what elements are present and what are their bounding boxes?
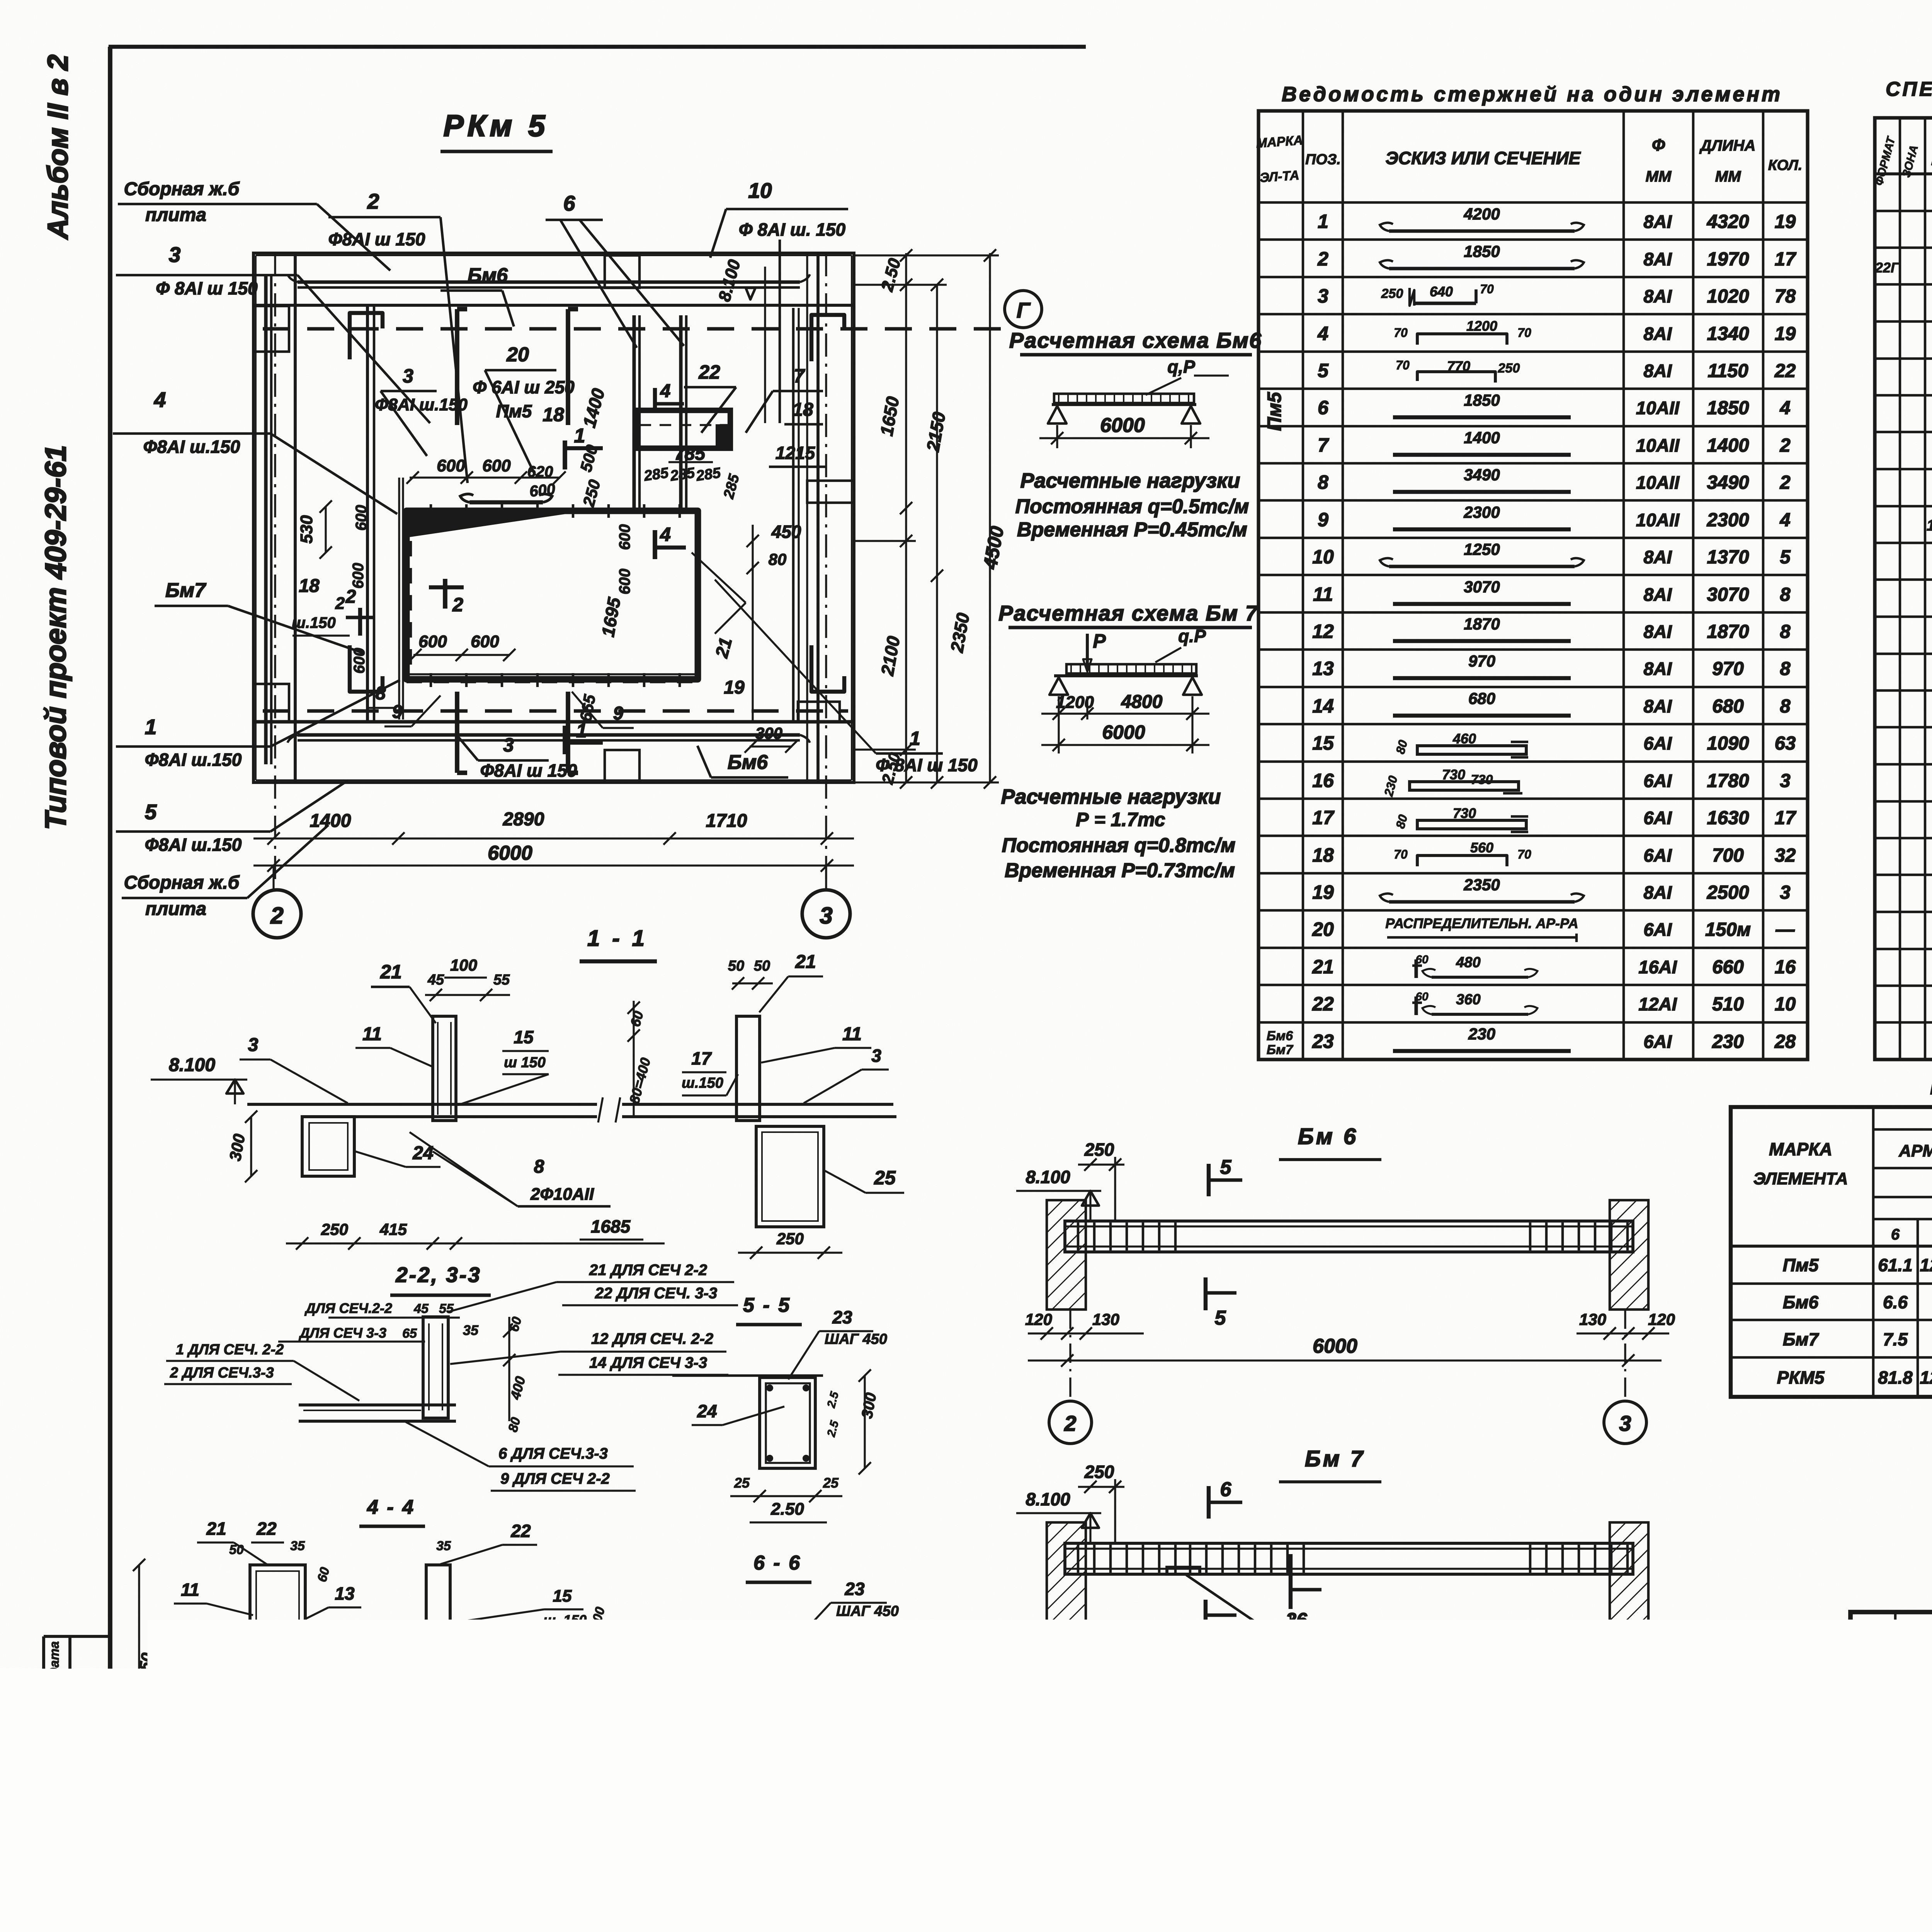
svg-text:q,Р: q,Р bbox=[1167, 357, 1195, 377]
svg-text:3: 3 bbox=[503, 734, 514, 756]
svg-text:250: 250 bbox=[321, 1220, 348, 1238]
svg-text:25: 25 bbox=[171, 1695, 192, 1715]
svg-text:22: 22 bbox=[256, 1519, 277, 1539]
svg-text:8.100: 8.100 bbox=[1026, 1167, 1070, 1187]
svg-text:16: 16 bbox=[1312, 770, 1334, 791]
svg-text:6 - 6: 6 - 6 bbox=[753, 1552, 801, 1574]
svg-text:Нач. отд: Нач. отд bbox=[1855, 1750, 1917, 1765]
svg-text:1 ДЛЯ СЕЧ. 2-2: 1 ДЛЯ СЕЧ. 2-2 bbox=[176, 1342, 284, 1358]
svg-text:q.Р: q.Р bbox=[1178, 626, 1206, 646]
svg-text:3490: 3490 bbox=[1707, 472, 1749, 493]
svg-text:Р = 1.7тс: Р = 1.7тс bbox=[1076, 809, 1165, 830]
svg-text:3490: 3490 bbox=[1464, 466, 1500, 484]
svg-text:23: 23 bbox=[1312, 1031, 1334, 1052]
svg-text:2: 2 bbox=[452, 594, 463, 616]
svg-text:600: 600 bbox=[418, 632, 447, 651]
svg-text:2.50: 2.50 bbox=[770, 1500, 804, 1519]
svg-text:21: 21 bbox=[1312, 956, 1334, 978]
svg-text:130: 130 bbox=[1092, 1671, 1119, 1689]
svg-text:ЭСКИЗ ИЛИ СЕЧЕНИЕ: ЭСКИЗ ИЛИ СЕЧЕНИЕ bbox=[1386, 148, 1581, 168]
svg-text:6 ДЛЯ СЕЧ.3-3: 6 ДЛЯ СЕЧ.3-3 bbox=[498, 1445, 608, 1462]
svg-text:АРМАТУРНАЯ СТАЛЬ ГОСТ 5781-75: АРМАТУРНАЯ СТАЛЬ ГОСТ 5781-75 bbox=[1898, 1141, 1932, 1160]
svg-text:5 - 5: 5 - 5 bbox=[743, 1294, 791, 1316]
svg-text:600: 600 bbox=[482, 456, 511, 475]
svg-text:Ф 8АI ш. 150: Ф 8АI ш. 150 bbox=[739, 219, 846, 240]
svg-text:4: 4 bbox=[1779, 510, 1790, 531]
svg-text:17: 17 bbox=[691, 1048, 712, 1068]
svg-text:1850: 1850 bbox=[1707, 398, 1749, 418]
svg-text:Бм6: Бм6 bbox=[1267, 1029, 1293, 1043]
svg-text:Бм7: Бм7 bbox=[1783, 1329, 1820, 1349]
svg-text:21: 21 bbox=[795, 952, 816, 972]
svg-text:2: 2 bbox=[1064, 1769, 1076, 1794]
svg-text:ДЛИНА: ДЛИНА bbox=[1699, 137, 1756, 154]
svg-text:Пм5: Пм5 bbox=[1264, 391, 1285, 431]
svg-text:8АI: 8АI bbox=[1643, 361, 1672, 381]
svg-text:Лист.: Лист. bbox=[1896, 1709, 1932, 1723]
svg-text:45: 45 bbox=[427, 972, 444, 988]
svg-text:9 ДЛЯ СЕЧ 2-2: 9 ДЛЯ СЕЧ 2-2 bbox=[500, 1470, 610, 1487]
svg-text:680: 680 bbox=[1468, 689, 1495, 707]
svg-text:7: 7 bbox=[1318, 434, 1329, 456]
svg-text:100: 100 bbox=[450, 956, 477, 974]
svg-text:510: 510 bbox=[1712, 994, 1744, 1015]
svg-text:18: 18 bbox=[299, 576, 320, 596]
svg-text:4800: 4800 bbox=[1121, 692, 1163, 712]
svg-text:21 ДЛЯ СЕЧ 2-2: 21 ДЛЯ СЕЧ 2-2 bbox=[589, 1262, 707, 1279]
svg-text:460: 460 bbox=[1452, 731, 1476, 747]
svg-text:230: 230 bbox=[1468, 1025, 1495, 1043]
svg-text:Альбом II в 2: Альбом II в 2 bbox=[42, 54, 74, 240]
svg-text:6000: 6000 bbox=[1313, 1335, 1357, 1357]
svg-text:22: 22 bbox=[1774, 361, 1796, 381]
svg-text:3: 3 bbox=[248, 1035, 259, 1055]
svg-text:ш.150: ш.150 bbox=[682, 1075, 723, 1091]
svg-text:СПЕЦИФИКАЦИЯ: СПЕЦИФИКАЦИЯ bbox=[1886, 78, 1932, 100]
svg-text:13: 13 bbox=[1312, 658, 1334, 679]
svg-text:1850: 1850 bbox=[1464, 242, 1500, 260]
svg-text:70: 70 bbox=[1480, 282, 1494, 296]
svg-text:1: 1 bbox=[145, 715, 157, 739]
svg-text:120: 120 bbox=[1648, 1310, 1675, 1328]
svg-text:6: 6 bbox=[1318, 397, 1329, 418]
svg-text:124.6: 124.6 bbox=[1920, 1255, 1932, 1275]
svg-text:2-2, 3-3: 2-2, 3-3 bbox=[395, 1263, 481, 1287]
svg-text:19: 19 bbox=[1312, 881, 1334, 903]
svg-text:Ф8АI ш.150: Ф8АI ш.150 bbox=[143, 437, 240, 457]
svg-text:285: 285 bbox=[695, 465, 722, 485]
svg-text:50: 50 bbox=[229, 1543, 244, 1557]
svg-text:730: 730 bbox=[1442, 767, 1465, 782]
svg-text:8: 8 bbox=[1318, 471, 1328, 493]
svg-text:Расчетная схема Бм6: Расчетная схема Бм6 bbox=[1009, 328, 1262, 352]
svg-text:1970: 1970 bbox=[1707, 249, 1749, 270]
svg-text:22 ДЛЯ СЕЧ. 3-3: 22 ДЛЯ СЕЧ. 3-3 bbox=[595, 1285, 717, 1302]
svg-text:Р: Р bbox=[1093, 630, 1106, 652]
svg-text:4: 4 bbox=[660, 524, 671, 545]
svg-text:1870: 1870 bbox=[1707, 621, 1749, 642]
svg-text:14: 14 bbox=[1312, 695, 1334, 717]
svg-text:Пм5: Пм5 bbox=[496, 401, 532, 421]
svg-text:4: 4 bbox=[1779, 398, 1790, 418]
svg-text:1: 1 bbox=[576, 720, 587, 742]
svg-text:1400: 1400 bbox=[1707, 435, 1749, 456]
svg-text:Ф: Ф bbox=[1652, 136, 1665, 155]
svg-text:600: 600 bbox=[437, 456, 465, 475]
svg-text:640: 640 bbox=[1430, 284, 1453, 299]
svg-text:78: 78 bbox=[1775, 286, 1796, 307]
svg-text:РКм 5: РКм 5 bbox=[444, 109, 549, 143]
svg-text:530: 530 bbox=[297, 515, 316, 544]
svg-text:6АI: 6АI bbox=[1643, 733, 1672, 753]
svg-text:9: 9 bbox=[392, 702, 403, 722]
svg-text:1340: 1340 bbox=[1707, 323, 1749, 344]
svg-text:25: 25 bbox=[825, 1808, 841, 1824]
svg-text:81.8: 81.8 bbox=[1878, 1367, 1913, 1388]
svg-text:Гл.констр.: Гл.констр. bbox=[1855, 1770, 1932, 1786]
svg-text:6.6: 6.6 bbox=[1883, 1292, 1908, 1312]
svg-text:Бм 6: Бм 6 bbox=[1298, 1124, 1358, 1149]
svg-text:2 ДЛЯ СЕЧ.3-3: 2 ДЛЯ СЕЧ.3-3 bbox=[170, 1365, 274, 1381]
svg-text:26: 26 bbox=[862, 1753, 883, 1773]
svg-text:17: 17 bbox=[1312, 807, 1335, 828]
svg-text:8АI: 8АI bbox=[1643, 584, 1672, 605]
svg-text:10: 10 bbox=[1775, 994, 1796, 1015]
svg-text:ш. 150: ш. 150 bbox=[543, 1612, 587, 1628]
svg-text:120: 120 bbox=[1025, 1671, 1052, 1689]
svg-text:1200: 1200 bbox=[1163, 1670, 1202, 1690]
svg-text:—: — bbox=[1776, 919, 1795, 940]
svg-text:3070: 3070 bbox=[1707, 584, 1749, 605]
svg-text:РАСПРЕДЕЛИТЕЛЬН. АР-РА: РАСПРЕДЕЛИТЕЛЬН. АР-РА bbox=[1385, 915, 1578, 931]
svg-text:МАРКА: МАРКА bbox=[1769, 1139, 1832, 1159]
svg-text:10: 10 bbox=[1312, 546, 1334, 568]
svg-text:8АI: 8АI bbox=[1643, 249, 1672, 269]
svg-text:23: 23 bbox=[156, 1782, 176, 1803]
svg-text:50: 50 bbox=[728, 958, 744, 974]
svg-text:6: 6 bbox=[1215, 1629, 1226, 1651]
svg-text:65: 65 bbox=[402, 1326, 417, 1341]
svg-text:124.6: 124.6 bbox=[1920, 1367, 1932, 1388]
svg-text:560: 560 bbox=[1470, 840, 1493, 855]
svg-text:20: 20 bbox=[506, 344, 529, 366]
svg-text:1-22: 1-22 bbox=[1927, 517, 1932, 534]
svg-text:5: 5 bbox=[1220, 1156, 1232, 1179]
svg-text:Ф8АI ш.150: Ф8АI ш.150 bbox=[375, 395, 468, 414]
svg-text:15: 15 bbox=[1312, 732, 1334, 754]
svg-text:ДЛЯ СЕЧ.2-2: ДЛЯ СЕЧ.2-2 bbox=[304, 1300, 392, 1316]
svg-text:12АI: 12АI bbox=[1638, 994, 1677, 1014]
svg-text:2: 2 bbox=[1779, 435, 1790, 456]
svg-text:ЭЛ-ТА: ЭЛ-ТА bbox=[1259, 168, 1300, 185]
svg-text:600: 600 bbox=[616, 569, 633, 595]
svg-text:2: 2 bbox=[270, 903, 283, 929]
svg-text:6: 6 bbox=[563, 191, 575, 215]
svg-text:8АI: 8АI bbox=[1643, 211, 1672, 232]
svg-text:8АI: 8АI bbox=[1643, 323, 1672, 344]
svg-text:16: 16 bbox=[175, 1634, 195, 1654]
svg-text:8АI: 8АI bbox=[1643, 882, 1672, 903]
svg-text:600: 600 bbox=[616, 524, 633, 550]
svg-text:2300: 2300 bbox=[1463, 503, 1500, 521]
svg-text:23: 23 bbox=[844, 1579, 865, 1599]
svg-text:16: 16 bbox=[1775, 957, 1796, 978]
svg-text:Ведомость стержней на один: Ведомость стержней на один элемент bbox=[1282, 83, 1782, 106]
svg-text:730: 730 bbox=[1453, 805, 1476, 821]
svg-text:ш.150: ш.150 bbox=[167, 1660, 206, 1676]
svg-text:10АII: 10АII bbox=[1636, 472, 1680, 493]
svg-text:1215: 1215 bbox=[776, 443, 816, 463]
svg-text:6АI: 6АI bbox=[1643, 1031, 1672, 1052]
svg-text:Рук. гр.: Рук. гр. bbox=[1855, 1791, 1906, 1807]
svg-text:25: 25 bbox=[874, 1167, 896, 1189]
svg-text:6АI: 6АI bbox=[1643, 770, 1672, 791]
svg-text:10: 10 bbox=[589, 1688, 608, 1707]
svg-text:250: 250 bbox=[1084, 1462, 1114, 1482]
svg-text:2.50: 2.50 bbox=[771, 1833, 805, 1852]
svg-text:8.100: 8.100 bbox=[1026, 1489, 1070, 1509]
svg-text:11: 11 bbox=[181, 1580, 199, 1600]
svg-text:Пм5: Пм5 bbox=[1783, 1255, 1819, 1275]
svg-text:КОЛ.: КОЛ. bbox=[1768, 157, 1803, 173]
svg-text:18: 18 bbox=[793, 400, 813, 420]
svg-text:21: 21 bbox=[380, 961, 402, 983]
svg-text:3: 3 bbox=[871, 1046, 881, 1066]
svg-text:1710: 1710 bbox=[706, 811, 747, 831]
svg-text:5: 5 bbox=[1780, 547, 1791, 568]
svg-text:2.50: 2.50 bbox=[314, 1808, 346, 1827]
svg-text:25: 25 bbox=[823, 1475, 839, 1491]
svg-text:19: 19 bbox=[724, 677, 745, 698]
svg-text:300: 300 bbox=[755, 724, 782, 742]
svg-text:Бм7: Бм7 bbox=[1267, 1043, 1294, 1057]
svg-text:3: 3 bbox=[1318, 285, 1328, 307]
svg-text:ПОЗ.: ПОЗ. bbox=[1305, 151, 1341, 168]
svg-text:2300: 2300 bbox=[1706, 510, 1749, 531]
svg-text:4: 4 bbox=[660, 381, 671, 401]
svg-text:24: 24 bbox=[412, 1143, 433, 1163]
svg-text:1850: 1850 bbox=[1464, 391, 1500, 409]
svg-text:11: 11 bbox=[842, 1024, 862, 1044]
svg-text:Бм6: Бм6 bbox=[728, 751, 768, 774]
svg-text:1150: 1150 bbox=[1708, 361, 1748, 381]
svg-text:Бм6: Бм6 bbox=[468, 264, 508, 287]
svg-text:Ф8АI ш.150: Ф8АI ш.150 bbox=[145, 750, 242, 770]
svg-text:250: 250 bbox=[1084, 1139, 1114, 1160]
svg-text:3: 3 bbox=[1619, 1411, 1631, 1435]
svg-text:8: 8 bbox=[534, 1156, 544, 1177]
svg-text:ПРОВЕРИЛ: ПРОВЕРИЛ bbox=[1855, 1832, 1932, 1848]
svg-text:150м: 150м bbox=[1705, 919, 1751, 940]
svg-text:плита: плита bbox=[145, 205, 206, 225]
svg-text:Подп. и дата: Подп. и дата bbox=[47, 1641, 62, 1728]
svg-text:18: 18 bbox=[543, 404, 564, 425]
svg-text:480: 480 bbox=[1456, 954, 1480, 971]
svg-text:2: 2 bbox=[1317, 248, 1328, 270]
svg-text:55: 55 bbox=[439, 1301, 454, 1316]
svg-text:35: 35 bbox=[290, 1539, 305, 1553]
svg-text:Сборная ж.б: Сборная ж.б bbox=[124, 872, 240, 893]
svg-text:360: 360 bbox=[1456, 992, 1480, 1008]
svg-text:Г: Г bbox=[1017, 298, 1031, 322]
svg-text:3: 3 bbox=[1780, 882, 1790, 903]
svg-text:ш 150: ш 150 bbox=[504, 1054, 546, 1071]
svg-text:ДЛЯ СЕЧ 3-3: ДЛЯ СЕЧ 3-3 bbox=[298, 1325, 386, 1341]
svg-text:250: 250 bbox=[776, 1230, 804, 1248]
svg-text:2: 2 bbox=[1779, 472, 1790, 493]
svg-text:8: 8 bbox=[1780, 621, 1791, 642]
svg-text:2890: 2890 bbox=[503, 809, 544, 830]
svg-text:70: 70 bbox=[1517, 847, 1531, 861]
svg-text:14 ДЛЯ СЕЧ 3-3: 14 ДЛЯ СЕЧ 3-3 bbox=[589, 1354, 707, 1371]
svg-text:7.5: 7.5 bbox=[1883, 1329, 1908, 1349]
svg-text:2Ф10АII: 2Ф10АII bbox=[526, 1750, 587, 1769]
svg-text:17: 17 bbox=[1775, 249, 1797, 270]
svg-text:Постоянная q=0.5тс/м: Постоянная q=0.5тс/м bbox=[1015, 495, 1249, 518]
svg-text:8АI: 8АI bbox=[1643, 286, 1672, 306]
svg-text:2500: 2500 bbox=[1706, 882, 1749, 903]
svg-text:970: 970 bbox=[1468, 652, 1495, 670]
svg-text:Ф8АI ш.150: Ф8АI ш.150 bbox=[145, 835, 242, 855]
svg-text:24: 24 bbox=[697, 1401, 717, 1421]
svg-text:12 ДЛЯ СЕЧ. 2-2: 12 ДЛЯ СЕЧ. 2-2 bbox=[591, 1330, 713, 1347]
svg-text:35: 35 bbox=[436, 1539, 451, 1553]
svg-text:25: 25 bbox=[734, 1475, 750, 1491]
svg-text:120: 120 bbox=[1648, 1671, 1675, 1689]
svg-text:4: 4 bbox=[1317, 323, 1328, 344]
svg-text:450: 450 bbox=[771, 522, 801, 542]
svg-text:Расчетные нагрузки: Расчетные нагрузки bbox=[1001, 785, 1221, 808]
svg-text:18: 18 bbox=[1312, 844, 1334, 866]
svg-text:130: 130 bbox=[1579, 1310, 1606, 1328]
svg-text:1630: 1630 bbox=[1707, 808, 1749, 828]
svg-text:2: 2 bbox=[367, 189, 379, 213]
svg-text:плита: плита bbox=[145, 899, 206, 919]
svg-text:13: 13 bbox=[335, 1583, 355, 1604]
svg-text:1090: 1090 bbox=[1707, 733, 1749, 754]
svg-text:15: 15 bbox=[553, 1587, 572, 1605]
svg-text:19: 19 bbox=[1775, 211, 1796, 232]
svg-text:Расчетные нагрузки: Расчетные нагрузки bbox=[1020, 469, 1240, 492]
svg-text:22: 22 bbox=[510, 1521, 531, 1541]
svg-text:1870: 1870 bbox=[1464, 615, 1500, 633]
svg-text:285: 285 bbox=[643, 465, 670, 485]
svg-text:1: 1 bbox=[1318, 211, 1328, 232]
svg-text:22: 22 bbox=[1312, 993, 1334, 1015]
svg-text:9: 9 bbox=[613, 703, 624, 724]
svg-text:415: 415 bbox=[379, 1220, 407, 1238]
svg-text:8АI: 8АI bbox=[1643, 658, 1672, 679]
svg-text:61.1: 61.1 bbox=[1878, 1255, 1913, 1275]
svg-text:1020: 1020 bbox=[1707, 286, 1749, 307]
svg-text:6АI: 6АI bbox=[1643, 919, 1672, 940]
svg-text:3070: 3070 bbox=[1464, 578, 1500, 596]
svg-text:700: 700 bbox=[1712, 845, 1744, 866]
svg-text:2: 2 bbox=[335, 594, 345, 613]
svg-text:5: 5 bbox=[1318, 360, 1329, 381]
svg-text:ШАГ 450: ШАГ 450 bbox=[836, 1603, 899, 1619]
svg-text:6: 6 bbox=[1220, 1478, 1232, 1501]
svg-text:Бм6: Бм6 bbox=[1783, 1292, 1819, 1312]
svg-text:5: 5 bbox=[145, 800, 157, 824]
svg-text:Гл.инж. пр.: Гл.инж. пр. bbox=[1855, 1729, 1931, 1745]
svg-text:2Ф10АII: 2Ф10АII bbox=[530, 1185, 594, 1204]
svg-text:22: 22 bbox=[698, 361, 720, 383]
svg-text:130: 130 bbox=[1579, 1671, 1606, 1689]
svg-text:4: 4 bbox=[154, 388, 166, 412]
svg-text:Постоянная q=0.8тс/м: Постоянная q=0.8тс/м bbox=[1002, 834, 1236, 857]
svg-text:Временная Р=0.45тс/м: Временная Р=0.45тс/м bbox=[1017, 519, 1247, 541]
svg-text:12: 12 bbox=[1312, 621, 1334, 642]
svg-text:Ф8АI ш 150: Ф8АI ш 150 bbox=[480, 760, 577, 781]
svg-text:Монолитный участок РКм5 за: Монолитный участок РКм5 замаркирован на … bbox=[878, 1799, 1703, 1824]
svg-text:680: 680 bbox=[1712, 696, 1744, 717]
svg-text:600: 600 bbox=[471, 632, 499, 651]
svg-text:250: 250 bbox=[1381, 286, 1403, 301]
svg-text:8: 8 bbox=[1780, 696, 1791, 717]
svg-text:Инв. №: подл.: Инв. №: подл. bbox=[47, 1749, 62, 1840]
svg-text:Временная Р=0.73тс/м: Временная Р=0.73тс/м bbox=[1005, 859, 1235, 882]
svg-text:1 - 1: 1 - 1 bbox=[587, 926, 648, 951]
svg-text:70: 70 bbox=[1396, 358, 1410, 372]
svg-text:Ф 6АI ш 250: Ф 6АI ш 250 bbox=[473, 377, 575, 397]
svg-text:19: 19 bbox=[1775, 323, 1796, 344]
svg-text:8: 8 bbox=[1780, 658, 1791, 679]
svg-text:70: 70 bbox=[1394, 847, 1408, 861]
svg-text:8АI: 8АI bbox=[1643, 621, 1672, 642]
svg-text:ММ: ММ bbox=[1715, 168, 1742, 185]
svg-text:6000: 6000 bbox=[1102, 721, 1145, 743]
svg-text:6000: 6000 bbox=[1313, 1693, 1357, 1716]
svg-text:3: 3 bbox=[403, 365, 413, 387]
svg-text:970: 970 bbox=[1712, 658, 1744, 679]
svg-text:7: 7 bbox=[794, 365, 805, 387]
svg-text:32: 32 bbox=[1775, 845, 1796, 866]
svg-text:28: 28 bbox=[1774, 1031, 1796, 1052]
svg-text:1685: 1685 bbox=[591, 1216, 631, 1236]
svg-text:1200: 1200 bbox=[1056, 693, 1094, 712]
svg-text:45: 45 bbox=[413, 1301, 429, 1316]
svg-text:Инж: Инж bbox=[1855, 1812, 1884, 1828]
svg-text:4200: 4200 bbox=[1463, 205, 1500, 223]
svg-text:РКМ5: РКМ5 bbox=[1777, 1367, 1825, 1388]
svg-text:6000: 6000 bbox=[1100, 414, 1145, 437]
svg-text:Расчетная схема Бм 7: Расчетная схема Бм 7 bbox=[998, 601, 1259, 625]
svg-text:70: 70 bbox=[1394, 326, 1408, 340]
svg-text:2350: 2350 bbox=[1463, 876, 1500, 894]
svg-text:7: 7 bbox=[574, 1717, 585, 1736]
svg-text:ММ: ММ bbox=[1646, 168, 1672, 185]
svg-text:1200: 1200 bbox=[1466, 318, 1497, 334]
svg-text:8.100: 8.100 bbox=[169, 1055, 215, 1075]
svg-text:1780: 1780 bbox=[1707, 770, 1749, 791]
svg-text:4320: 4320 bbox=[1706, 211, 1749, 232]
svg-text:20: 20 bbox=[1312, 918, 1334, 940]
svg-text:16АI: 16АI bbox=[1638, 957, 1677, 977]
svg-text:600: 600 bbox=[353, 505, 370, 531]
svg-text:1250: 1250 bbox=[1464, 540, 1500, 558]
svg-text:2: 2 bbox=[345, 587, 356, 607]
svg-text:8: 8 bbox=[376, 683, 386, 704]
svg-text:6: 6 bbox=[1891, 1226, 1900, 1243]
svg-text:5: 5 bbox=[1215, 1307, 1226, 1329]
svg-text:250: 250 bbox=[1498, 361, 1520, 376]
svg-text:Бм7: Бм7 bbox=[165, 579, 206, 602]
svg-text:Типовой проект 409-29-61: Типовой проект 409-29-61 bbox=[39, 445, 72, 830]
svg-text:ВЫБОРКА СТАЛИ НА ОДИН ЭЛЕ: ВЫБОРКА СТАЛИ НА ОДИН ЭЛЕМЕНТ, КГ bbox=[1930, 1078, 1932, 1099]
svg-text:1400: 1400 bbox=[1464, 429, 1500, 447]
svg-text:25: 25 bbox=[737, 1808, 753, 1824]
